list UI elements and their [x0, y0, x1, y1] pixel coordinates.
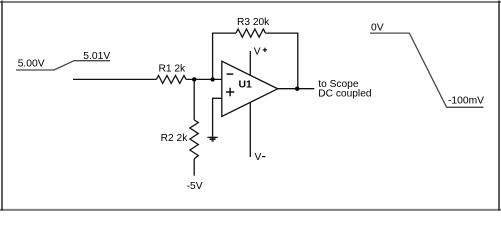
svg-text:R3 20k: R3 20k — [237, 17, 270, 28]
V+ supply pin — [249, 51, 251, 75]
wire feedback tap up to R3 — [213, 33, 236, 79]
wire R3 to output node — [265, 33, 297, 89]
svg-text:U1: U1 — [239, 80, 253, 91]
border frame right — [498, 1, 500, 211]
wire non-inverting input to ground — [213, 98, 222, 136]
output step waveform — [370, 33, 484, 107]
input step waveform — [16, 61, 110, 70]
wire down to R2 — [193, 79, 195, 120]
svg-text:5.00V: 5.00V — [18, 59, 45, 70]
node junction at R2 tap — [192, 77, 196, 81]
border frame left — [1, 1, 3, 211]
svg-text:-5V: -5V — [187, 181, 203, 192]
non-inverting input plus sign — [226, 88, 234, 96]
resistor R3 — [236, 17, 270, 37]
svg-text:V: V — [255, 152, 262, 163]
node junction at feedback tap — [210, 77, 214, 81]
inverting input minus sign — [227, 73, 234, 75]
resistor R1 — [156, 64, 186, 84]
svg-text:R1 2k: R1 2k — [159, 64, 187, 75]
wire R1 to op-amp inverting input — [186, 78, 222, 80]
svg-text:R2 2k: R2 2k — [161, 133, 189, 144]
ground — [207, 137, 218, 141]
wire R2 to -5V — [193, 159, 195, 176]
output wire — [278, 88, 315, 90]
wire input to R1 — [73, 78, 156, 80]
svg-text:DC coupled: DC coupled — [318, 89, 372, 100]
op-amp U1 — [222, 61, 278, 116]
node junction at output — [295, 87, 299, 91]
svg-text:0V: 0V — [371, 22, 384, 33]
V- supply pin — [249, 103, 251, 158]
border frame top — [0, 1, 501, 3]
svg-text:-100mV: -100mV — [448, 95, 484, 106]
svg-text:V: V — [254, 47, 261, 58]
resistor R2 — [161, 120, 199, 159]
border frame bottom — [0, 209, 501, 211]
svg-text:5.01V: 5.01V — [83, 51, 110, 62]
